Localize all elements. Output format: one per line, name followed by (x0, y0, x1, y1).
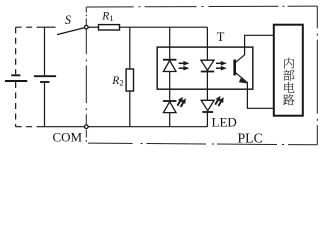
svg-text:COM: COM (53, 130, 83, 145)
LED D4 emission arrows (215, 100, 221, 106)
resistor R2 (126, 69, 133, 91)
COM terminal node (85, 125, 89, 129)
input terminal node (85, 25, 89, 29)
svg-text:T: T (217, 30, 225, 44)
wire: bottom rail (COM) (88, 126, 207, 128)
svg-text:R2: R2 (111, 75, 123, 88)
internal circuit box (274, 25, 303, 116)
wire top external solid (38, 26, 56, 28)
battery B1 dashed lead upper (15, 27, 17, 74)
PLC enclosure boundary (dash-dot) (86, 6, 317, 145)
wire: branch 2 upper (206, 27, 208, 60)
wire: branch 1 middle (169, 72, 171, 102)
svg-text:PLC: PLC (238, 130, 263, 145)
wire: branch 2 middle (206, 72, 208, 101)
opto LED D1 (anode down) (163, 60, 176, 72)
battery B2 long plate (34, 75, 56, 77)
external dashed wire top (battery 1 feed) (16, 26, 38, 28)
emitter arrowhead (239, 78, 248, 84)
phototransistor emitter lead (235, 72, 273, 108)
LED D3 emission arrows (177, 101, 183, 107)
svg-text:LED: LED (212, 114, 237, 129)
wire: branch 2 lower (206, 112, 208, 127)
light arrows from D1 (179, 63, 185, 68)
resistor R1 (99, 25, 120, 30)
wire: branch 1 upper (169, 27, 171, 60)
wire: R2 branch lower (129, 91, 131, 127)
indicator LED D4 (points down) (201, 100, 214, 112)
battery B1 short plate (11, 74, 20, 76)
wire bottom external solid (42, 126, 85, 128)
battery B2 lead lower (44, 83, 46, 127)
switch S blade (57, 28, 84, 35)
wire: input terminal to R1 (88, 26, 99, 28)
phototransistor collector lead (235, 35, 273, 62)
wire: R1 to right branch (120, 26, 208, 28)
battery B2 short plate (40, 81, 49, 83)
svg-text:S: S (65, 13, 72, 27)
optocoupler T package box (157, 47, 253, 89)
indicator LED D3 (points up) (163, 101, 177, 113)
phototransistor Q1 base bar (233, 60, 236, 76)
label 内部电路 (internal circuit, drawn glyph outlines) (283, 58, 294, 106)
battery B1 dashed lead lower (15, 82, 17, 127)
light arrows from D2 (216, 63, 222, 68)
opto LED D2 (anode up) (201, 60, 214, 71)
wire: R2 branch upper (129, 27, 131, 69)
battery B1 long plate (5, 80, 27, 82)
wire: branch 1 lower (169, 113, 171, 127)
battery B2 lead upper (44, 27, 46, 75)
external dashed wire bottom (16, 126, 43, 128)
svg-text:R1: R1 (101, 11, 113, 24)
